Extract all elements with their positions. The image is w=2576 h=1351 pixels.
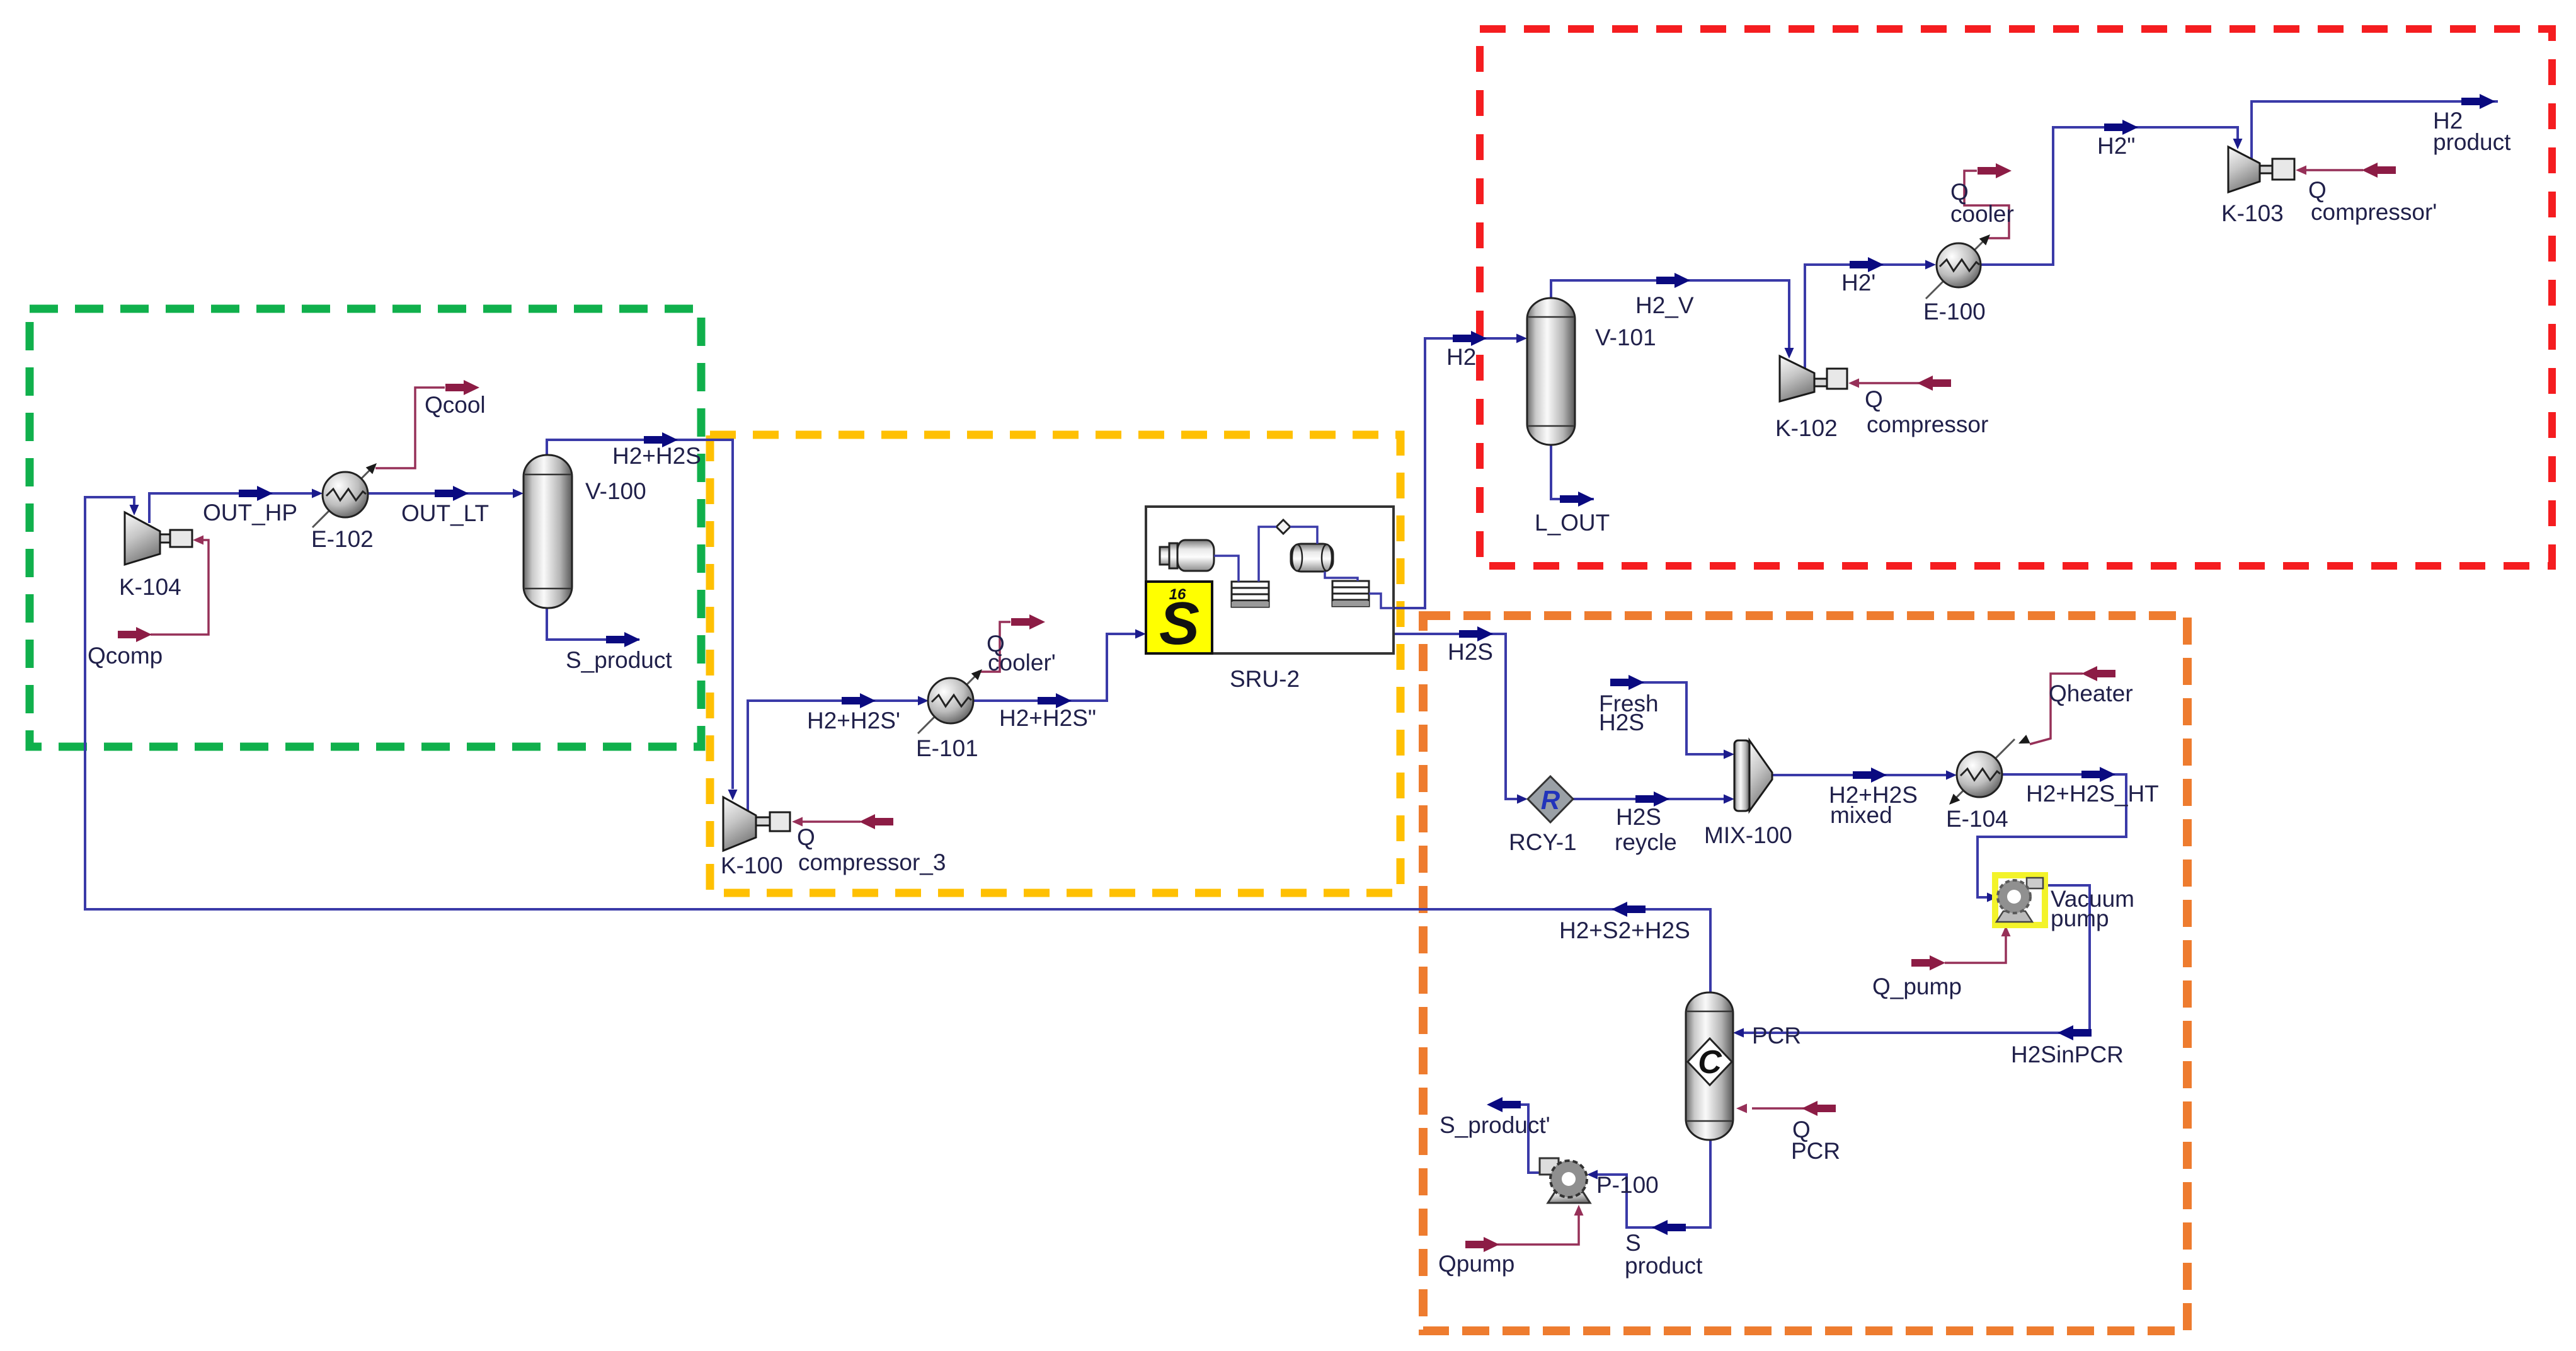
svg-text:S_product': S_product' (1440, 1112, 1550, 1138)
bold arrow H2+S2+H2S (left) (1611, 902, 1646, 917)
svg-text:H2S: H2S (1616, 804, 1661, 830)
wire stream L_OUT (V-101 bottom) (1551, 445, 1594, 499)
arrowhead into PCR column feed (1733, 1028, 1744, 1038)
svg-text:H2_V: H2_V (1635, 292, 1694, 318)
mixer MIX-100 (1734, 740, 1772, 811)
recycle block RCY-1 (1528, 776, 1573, 822)
svg-text:H2+H2S': H2+H2S' (807, 708, 900, 733)
bold energy arrow Q compressor_3 (left) (859, 814, 893, 829)
svg-text:Qpump: Qpump (1438, 1251, 1514, 1277)
svg-text:H2SinPCR: H2SinPCR (2011, 1042, 2124, 1067)
svg-text:OUT_HP: OUT_HP (203, 500, 297, 526)
bold arrow H2+H2S (644, 432, 678, 447)
wire energy Q_pump to Vacuum pump (1945, 934, 2006, 963)
arrowhead into E-102 (312, 489, 323, 498)
svg-text:cooler': cooler' (988, 650, 1056, 675)
bold energy arrow Q compressor' (left) (2362, 163, 2396, 178)
energy arrowhead into K-104 coupling (193, 536, 203, 545)
bold arrow H2+H2S' (842, 693, 876, 708)
svg-text:pump: pump (2051, 905, 2109, 931)
svg-text:S: S (1159, 590, 1199, 657)
wire energy Qheater to E-104 (2030, 674, 2083, 744)
svg-text:Q: Q (1865, 386, 1883, 412)
arrowhead into E-104 (1946, 771, 1957, 780)
wire energy Q compressor_3 to K-100 (802, 820, 861, 823)
bold arrow H2S reycle (1635, 791, 1669, 807)
wire stream OUT_LT (E-102 to V-100) (368, 492, 513, 495)
vessel V-100 (524, 455, 572, 608)
wire stream H2S (SRU-2 to RCY-1) (1394, 634, 1518, 799)
bold energy arrow Qcomp (118, 627, 152, 642)
bold arrow H2' (1850, 257, 1884, 272)
wire energy Q compressor' to K-103 (2306, 169, 2363, 171)
wire energy Q compressor to K-102 (1858, 382, 1920, 384)
svg-text:S: S (1625, 1230, 1641, 1256)
SRU internal condenser box left (1232, 582, 1269, 607)
bold arrow H2'' (2104, 120, 2138, 135)
svg-text:PCR: PCR (1752, 1023, 1801, 1049)
wire energy Q PCR to PCR column (1752, 1107, 1806, 1110)
svg-text:V-101: V-101 (1595, 325, 1656, 350)
arrowhead into RCY-1 (1517, 795, 1528, 804)
bold arrow H2S (1459, 626, 1493, 641)
wire stream OUT_HP (K-104 to E-102) (149, 493, 312, 523)
wire stream H2' (K-102 to E-100) (1805, 265, 1926, 368)
bold arrow H2+H2S mixed (1853, 767, 1887, 783)
svg-text:K-100: K-100 (721, 853, 783, 878)
bold energy arrow Q_pump (1911, 955, 1945, 970)
svg-text:V-100: V-100 (585, 478, 646, 504)
arrowhead into E-100 (1925, 260, 1936, 270)
green dashed boundary box (K-104/E-102/V-100 section) (30, 309, 701, 747)
vessel V-101 (1527, 298, 1575, 445)
svg-text:H2': H2' (1841, 270, 1875, 296)
bold arrow Fresh H2S (1610, 675, 1644, 690)
SRU internal burner cylinder (1160, 540, 1214, 571)
svg-text:Qheater: Qheater (2049, 681, 2133, 706)
svg-text:compressor': compressor' (2311, 199, 2437, 225)
arrowhead into V-101 (1516, 334, 1527, 343)
SRU internal drum (1291, 544, 1333, 572)
bold arrow H2_V (1656, 273, 1690, 288)
svg-text:H2S: H2S (1448, 639, 1493, 665)
PCR reactor column (1686, 992, 1733, 1140)
svg-text:H2: H2 (1446, 344, 1476, 370)
wire stream H2+H2S mixed (MIX-100 to E-104) (1772, 774, 1947, 776)
bold energy arrow Q cooler (1978, 163, 2012, 178)
bold arrow H2+H2S'' (1038, 693, 1072, 708)
heat exchanger E-100 (cooler) (1926, 231, 1993, 299)
svg-text:K-103: K-103 (2221, 200, 2284, 226)
compressor K-100 (723, 797, 790, 851)
bold arrow S_product (606, 632, 640, 647)
bold energy arrow Qcool (445, 380, 479, 395)
svg-text:C: C (1698, 1044, 1722, 1081)
wire stream S product (PCR bottom to P-100) (1597, 1140, 1710, 1227)
energy arrowhead into K-102 coupling (1848, 379, 1859, 388)
wire stream H2+S2+H2S (PCR top recycle to K-104) (85, 497, 1710, 992)
bold arrow H2 product (2461, 94, 2495, 109)
bold energy arrow Qheater (left) (2081, 666, 2115, 681)
wire energy Q cooler' from E-101 (978, 622, 1010, 672)
pump P-100 (1540, 1158, 1590, 1203)
yellow dashed boundary box (K-100/E-101/SRU section) (710, 435, 1400, 893)
wire stream Fresh H2S (to MIX-100) (1611, 682, 1724, 754)
heat exchanger E-104 (heater) (1946, 735, 2030, 808)
svg-text:K-102: K-102 (1775, 415, 1838, 441)
arrowhead into P-100 (1587, 1170, 1598, 1180)
wire stream H2SinPCR / PCR (Vacuum pump to PCR column) (1743, 885, 2090, 1033)
svg-text:H2S: H2S (1599, 710, 1644, 735)
arrowhead into MIX-100 bottom inlet (1724, 795, 1734, 804)
bold energy arrow Qpump (1465, 1237, 1499, 1252)
bold arrow OUT_LT (435, 486, 469, 501)
arrowhead into Vacuum pump (1987, 893, 1998, 902)
svg-text:H2+H2S": H2+H2S" (999, 705, 1096, 731)
svg-text:Q_pump: Q_pump (1872, 974, 1962, 999)
bold arrow H2+H2S_HT (2081, 767, 2115, 782)
heat exchanger E-101 (cooler) (918, 666, 985, 733)
wire energy Qcool from E-102 (375, 388, 445, 468)
svg-text:L_OUT: L_OUT (1535, 510, 1610, 536)
svg-text:E-100: E-100 (1923, 299, 1986, 325)
bold energy arrow Q PCR (left) (1802, 1101, 1836, 1116)
bold arrow H2 (1453, 331, 1487, 346)
SRU internal valve diamond (1276, 520, 1290, 534)
svg-text:compressor_3: compressor_3 (798, 849, 946, 875)
compressor K-104 (125, 512, 192, 565)
svg-text:S_product: S_product (566, 647, 672, 673)
wire stream H2+H2S_HT (E-104 to Vacuum pump) (1978, 774, 2126, 897)
bold energy arrow Q cooler' (1011, 614, 1045, 630)
wire stream H2+H2S' (K-100 to E-101) (748, 701, 919, 813)
svg-text:E-102: E-102 (311, 526, 374, 552)
bold arrow S_product' (left) (1487, 1097, 1521, 1112)
energy arrowhead into K-100 coupling (792, 817, 803, 827)
wire stream H2_V (V-101 top to K-102) (1551, 280, 1789, 348)
svg-text:Qcool: Qcool (425, 392, 486, 418)
svg-text:E-104: E-104 (1946, 806, 2008, 832)
SRU internal wires (1214, 527, 1394, 608)
svg-text:product: product (2433, 129, 2511, 155)
wire stream H2 product (K-103 out) (2252, 101, 2498, 159)
wire energy Q cooler from E-100 (1964, 171, 2009, 238)
wire stream H2'' (E-100 to K-103) (1980, 127, 2238, 265)
bold arrow S product (left) (1652, 1220, 1686, 1235)
SRU-2 sub-flowsheet box (1146, 507, 1394, 657)
arrowhead into MIX-100 top inlet (1724, 750, 1734, 759)
svg-text:H2+H2S_HT: H2+H2S_HT (2026, 781, 2159, 807)
svg-text:R: R (1541, 785, 1560, 815)
svg-text:Qcomp: Qcomp (88, 643, 163, 669)
svg-text:K-104: K-104 (119, 574, 181, 600)
compressor K-103 (2228, 147, 2294, 192)
svg-text:mixed: mixed (1830, 802, 1892, 828)
bold energy arrow Q compressor (left) (1917, 376, 1951, 391)
arrowhead into E-101 (918, 696, 929, 706)
svg-text:SRU-2: SRU-2 (1230, 666, 1300, 692)
wire energy Qpump to P-100 (1497, 1214, 1579, 1245)
energy arrowhead into PCR column (1736, 1104, 1747, 1113)
bold arrow L_OUT (1560, 492, 1594, 507)
svg-text:OUT_LT: OUT_LT (401, 500, 489, 526)
svg-text:H2": H2" (2097, 133, 2135, 159)
compressor K-102 (1780, 356, 1847, 401)
heat exchanger E-102 (cooler) (312, 460, 380, 527)
wire stream H2+H2S'' (E-101 to SRU-2) (973, 634, 1136, 701)
energy arrowhead into K-103 coupling (2296, 166, 2306, 175)
wire stream S_product (V-100 bottom) (547, 608, 639, 640)
bold arrow OUT_HP (239, 486, 273, 501)
Vacuum pump (highlighted) (1995, 875, 2045, 925)
arrowhead into K-104 (130, 505, 139, 515)
svg-text:MIX-100: MIX-100 (1704, 822, 1792, 848)
svg-text:H2+S2+H2S: H2+S2+H2S (1559, 917, 1690, 943)
arrowhead into V-100 (513, 489, 524, 498)
wire stream H2+H2S (V-100 top to K-100) (547, 440, 733, 789)
arrowhead into K-102 (1785, 348, 1794, 359)
wire stream H2 (SRU-2 to V-101) (1394, 338, 1517, 608)
wire stream H2S reycle (RCY-1 to MIX-100) (1573, 798, 1724, 800)
arrowhead into K-103 (2233, 139, 2243, 149)
arrowhead into K-100 (728, 790, 738, 800)
SRU sulfur element tile (1146, 582, 1212, 657)
bold arrow H2SinPCR (left) (2058, 1025, 2092, 1040)
svg-text:RCY-1: RCY-1 (1509, 829, 1577, 855)
orange dashed boundary box (RCY/MIX/E-104/PCR section) (1423, 616, 2187, 1331)
wire stream S_product' (P-100 out) (1521, 1105, 1541, 1173)
svg-text:Q: Q (797, 824, 815, 850)
energy arrowhead into Vacuum pump (2001, 926, 2011, 936)
svg-text:compressor: compressor (1867, 411, 1988, 437)
svg-text:reycle: reycle (1615, 829, 1677, 855)
SRU internal condenser box right (1332, 581, 1369, 606)
wire energy Qcomp to K-104 (151, 540, 209, 635)
svg-text:PCR: PCR (1791, 1138, 1840, 1164)
svg-text:P-100: P-100 (1596, 1172, 1659, 1198)
svg-text:H2+H2S: H2+H2S (612, 443, 701, 469)
arrowhead into SRU-2 (1135, 630, 1146, 639)
energy arrowhead into P-100 (1574, 1205, 1584, 1216)
svg-text:cooler: cooler (1950, 201, 2014, 227)
svg-text:E-101: E-101 (916, 735, 978, 761)
red dashed boundary box (V-101/K-102/E-100/K-103 section) (1480, 29, 2552, 566)
svg-text:product: product (1625, 1253, 1703, 1279)
